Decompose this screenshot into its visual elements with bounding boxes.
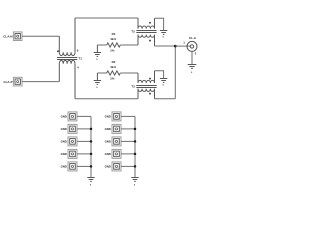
wire L4 bbox=[77, 153, 91, 155]
wire R1 to T2 bottom-left bbox=[120, 44, 138, 46]
T3 top-left stub bbox=[137, 73, 139, 83]
wire ground to R1 bbox=[97, 44, 106, 46]
T1 secondary winding bbox=[59, 60, 75, 63]
transformer T3 bbox=[136, 71, 156, 99]
wire ground to R2 bbox=[97, 72, 106, 74]
wire T3 bottom-right to right bus bbox=[155, 98, 176, 100]
T2 phase dot top bbox=[149, 22, 151, 24]
transformer T2 bbox=[136, 18, 156, 46]
junction L3 bbox=[90, 140, 93, 143]
wire R1 bbox=[121, 115, 135, 117]
wire T2 top-right to ground bbox=[155, 18, 164, 30]
transformer T1 bbox=[57, 18, 77, 99]
ground at T3 bbox=[160, 79, 167, 83]
svg-text:GND: GND bbox=[105, 115, 111, 119]
T3 phase dot bottom bbox=[149, 93, 151, 95]
ground right bus bbox=[131, 178, 138, 182]
left GND bus bbox=[90, 116, 92, 177]
connector GND R2 bbox=[112, 124, 121, 133]
svg-text:49.9: 49.9 bbox=[110, 65, 116, 69]
wire L5 bbox=[77, 165, 91, 167]
wire L2 bbox=[77, 128, 91, 130]
junction L5 bbox=[90, 165, 93, 168]
svg-text:49.9: 49.9 bbox=[110, 37, 116, 41]
junction L4 bbox=[90, 153, 93, 156]
svg-text:GND: GND bbox=[61, 127, 67, 131]
svg-text:T2: T2 bbox=[131, 30, 135, 34]
connector GND L4 bbox=[68, 149, 77, 158]
T3 bottom-right stub bbox=[154, 89, 156, 99]
ground at R1 left bbox=[94, 45, 101, 56]
T1 secondary bottom-right stub bbox=[74, 64, 76, 99]
svg-text:GND: GND bbox=[105, 140, 111, 144]
ground at T2 bbox=[160, 31, 167, 35]
T3 bottom-left stub bbox=[137, 89, 139, 99]
T1 primary top-left stub bbox=[58, 36, 60, 52]
svg-text:CLA-P: CLA-P bbox=[3, 80, 12, 84]
wire R5 bbox=[121, 165, 135, 167]
svg-text:T3: T3 bbox=[131, 84, 135, 88]
svg-text:R1: R1 bbox=[112, 32, 116, 36]
svg-text:GND: GND bbox=[105, 152, 111, 156]
T2 secondary winding bbox=[138, 35, 155, 38]
T3 secondary winding bbox=[138, 89, 155, 92]
ground at CL-A bbox=[188, 65, 197, 69]
T3 primary winding bbox=[138, 80, 155, 83]
connector GND L5 bbox=[68, 162, 77, 171]
T2 phase dot bottom bbox=[149, 40, 151, 42]
connector GND R5 bbox=[112, 162, 121, 171]
wire R2 to T3 top-left bbox=[120, 72, 138, 74]
svg-text:T1: T1 bbox=[78, 56, 82, 60]
connector J1 CLA-N bbox=[13, 32, 22, 41]
connector GND L1 bbox=[68, 112, 77, 121]
T2 top-left stub bbox=[137, 18, 139, 29]
ground at R2 left bbox=[94, 73, 101, 84]
connector GND R1 bbox=[112, 112, 121, 121]
T1 core bbox=[57, 58, 77, 60]
T2 core bbox=[136, 31, 156, 33]
T2 bottom-right stub bbox=[154, 35, 156, 46]
svg-text:CL-A: CL-A bbox=[189, 36, 197, 40]
resistor R2 bbox=[107, 71, 121, 75]
wire T3 top-right to ground bbox=[155, 71, 164, 79]
svg-text:GND: GND bbox=[61, 140, 67, 144]
wire CL-A pin2 to ground bbox=[191, 51, 193, 64]
connector GND R4 bbox=[112, 149, 121, 158]
ground left bus bbox=[87, 178, 94, 182]
right GND bus bbox=[134, 116, 136, 177]
wire junction to connector CL-A bbox=[175, 45, 190, 47]
svg-text:GND: GND bbox=[105, 127, 111, 131]
svg-text:GND: GND bbox=[105, 165, 111, 169]
connector GND L2 bbox=[68, 124, 77, 133]
junction R4 bbox=[134, 153, 137, 156]
junction R5 bbox=[134, 165, 137, 168]
T1 secondary bottom-left stub bbox=[58, 64, 60, 82]
T3 core bbox=[136, 86, 156, 88]
T3 top-right stub bbox=[154, 71, 156, 83]
junction L2 bbox=[90, 128, 93, 131]
svg-text:R2: R2 bbox=[112, 60, 116, 64]
svg-text:1%: 1% bbox=[110, 49, 115, 53]
junction R3 bbox=[134, 140, 137, 143]
svg-text:CLA-N: CLA-N bbox=[3, 34, 12, 38]
wire T2 bottom-right to junction bbox=[155, 45, 176, 47]
connector GND L3 bbox=[68, 137, 77, 146]
connector GND R3 bbox=[112, 137, 121, 146]
connector J2 CLA-P bbox=[13, 77, 22, 86]
right bus wire (junction to bottom) bbox=[174, 46, 176, 99]
wire T1 bottom-right to T3 bottom-left (net bottom) bbox=[75, 98, 138, 100]
T2 top-right stub bbox=[154, 18, 156, 28]
T2 primary winding bbox=[138, 26, 155, 29]
T3 phase dot top bbox=[149, 78, 151, 80]
svg-text:GND: GND bbox=[61, 165, 67, 169]
connector CL-A bbox=[187, 41, 197, 51]
wire L3 bbox=[77, 140, 91, 142]
T1 primary top-right stub bbox=[74, 18, 76, 52]
wire R3 bbox=[121, 140, 135, 142]
svg-text:GND: GND bbox=[61, 115, 67, 119]
svg-text:GND: GND bbox=[61, 152, 67, 156]
junction node bbox=[174, 45, 177, 48]
wire T1 top-right to T2 top-left (net top) bbox=[75, 17, 138, 19]
T2 bottom-left stub bbox=[137, 35, 139, 45]
junction R2 bbox=[134, 128, 137, 131]
svg-text:1%: 1% bbox=[110, 77, 115, 81]
wire CLA-N to T1 pin 6 top-left bbox=[22, 35, 59, 37]
wire R2 bbox=[121, 128, 135, 130]
T1 primary winding bbox=[59, 52, 75, 55]
wire L1 bbox=[77, 115, 91, 117]
resistor R1 bbox=[107, 43, 121, 47]
wire CLA-P to T1 bottom-left bbox=[22, 81, 59, 83]
T1 phase dot bbox=[57, 50, 59, 52]
wire R4 bbox=[121, 153, 135, 155]
